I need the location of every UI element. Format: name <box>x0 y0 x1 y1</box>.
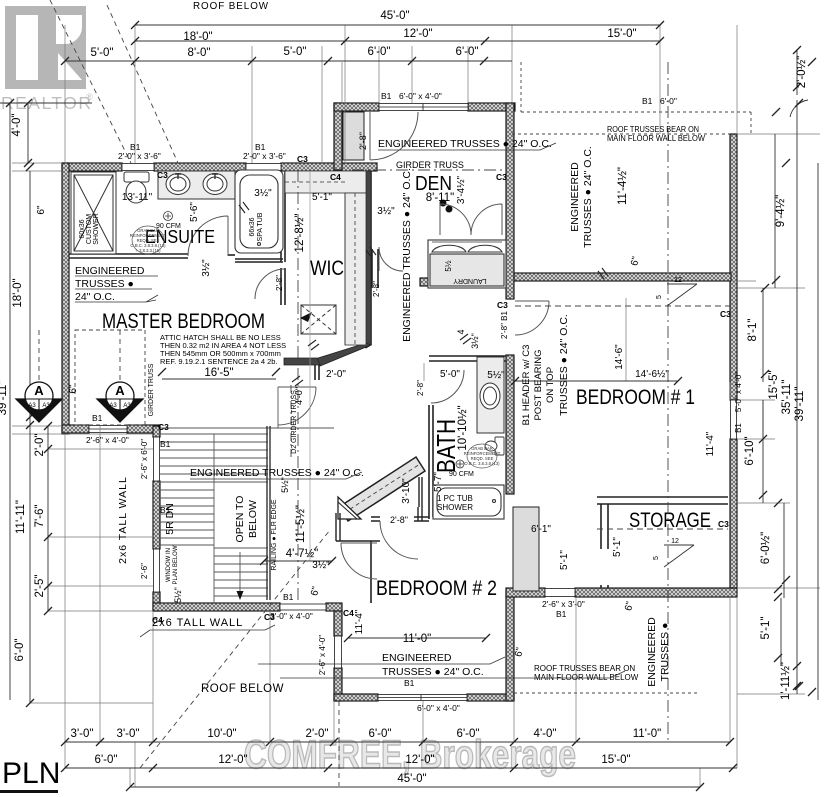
svg-text:5½: 5½ <box>444 260 453 271</box>
svg-text:5'-1": 5'-1" <box>760 617 772 640</box>
svg-text:3½": 3½" <box>312 560 330 571</box>
svg-text:SHOWER: SHOWER <box>437 503 473 512</box>
svg-text:2'-6" x 4'-0": 2'-6" x 4'-0" <box>318 635 327 675</box>
svg-text:6'-0" x 4'-0": 6'-0" x 4'-0" <box>399 91 442 101</box>
svg-text:2'-6" x 6'-0": 2'-6" x 6'-0" <box>140 439 149 479</box>
svg-text:6'-0": 6'-0" <box>369 728 392 740</box>
svg-text:14'-6½": 14'-6½" <box>635 369 669 380</box>
svg-text:5½": 5½" <box>280 477 290 493</box>
svg-text:2'-0" x 3'-6": 2'-0" x 3'-6" <box>243 151 286 161</box>
svg-text:ROOF BELOW: ROOF BELOW <box>193 0 269 12</box>
svg-text:B1: B1 <box>381 91 392 101</box>
svg-text:5'-7": 5'-7" <box>433 472 444 492</box>
svg-text:TRUSSES ●: TRUSSES ● <box>75 278 134 290</box>
svg-text:5'-0" x 4'-0": 5'-0" x 4'-0" <box>734 372 743 412</box>
svg-text:B1: B1 <box>556 609 567 619</box>
svg-text:C3: C3 <box>718 519 729 529</box>
svg-text:A3: A3 <box>109 403 117 409</box>
svg-text:ENGINEERED: ENGINEERED <box>569 162 581 232</box>
svg-text:2'-8" B1: 2'-8" B1 <box>500 310 509 338</box>
svg-text:35'-11": 35'-11" <box>781 380 793 415</box>
svg-text:2'-6" x 3'-0": 2'-6" x 3'-0" <box>542 599 585 609</box>
svg-text:12'-0": 12'-0" <box>218 754 247 766</box>
svg-text:11'-4": 11'-4" <box>354 609 365 634</box>
svg-text:2'-8": 2'-8" <box>372 281 381 297</box>
svg-text:2'-8": 2'-8" <box>390 515 408 525</box>
svg-text:MAIN FLOOR WALL BELOW: MAIN FLOOR WALL BELOW <box>534 673 639 682</box>
svg-text:6'-0": 6'-0" <box>456 46 479 58</box>
svg-text:6": 6" <box>36 205 47 215</box>
svg-text:4'-0": 4'-0" <box>534 728 557 740</box>
svg-text:D2 GIRDER TRUSS: D2 GIRDER TRUSS <box>291 390 298 454</box>
svg-text:5'-1": 5'-1" <box>312 192 332 203</box>
svg-text:3'-4½": 3'-4½" <box>456 175 467 204</box>
svg-text:9'-4½": 9'-4½" <box>775 195 787 228</box>
svg-text:18'-0": 18'-0" <box>183 31 212 43</box>
svg-text:TRUSSES ● 24" O.C.: TRUSSES ● 24" O.C. <box>382 666 484 678</box>
svg-text:C3: C3 <box>157 170 168 180</box>
svg-text:6'-0": 6'-0" <box>457 728 480 740</box>
svg-text:12: 12 <box>674 277 682 284</box>
svg-text:4'-7½": 4'-7½" <box>286 548 319 560</box>
svg-text:11'-4": 11'-4" <box>705 431 716 456</box>
svg-text:WINDOW IN: WINDOW IN <box>166 548 172 582</box>
svg-text:3'-0": 3'-0" <box>117 728 140 740</box>
svg-text:SPA TUB: SPA TUB <box>257 212 264 241</box>
svg-text:12: 12 <box>671 538 679 545</box>
svg-text:A3: A3 <box>42 403 50 409</box>
svg-text:8'-1": 8'-1" <box>747 319 759 342</box>
svg-text:WIC: WIC <box>310 257 344 280</box>
svg-text:B1: B1 <box>734 423 743 433</box>
svg-text:6'-1": 6'-1" <box>531 524 551 535</box>
svg-text:B1: B1 <box>92 413 103 423</box>
svg-text:ENGINEERED: ENGINEERED <box>382 652 452 664</box>
svg-text:4: 4 <box>456 329 466 334</box>
svg-text:11'-0": 11'-0" <box>633 728 661 740</box>
svg-text:3'-0" x 4'-0": 3'-0" x 4'-0" <box>270 611 313 621</box>
svg-text:BEDROOM # 1: BEDROOM # 1 <box>576 386 695 409</box>
svg-text:C3: C3 <box>496 172 507 182</box>
svg-text:MAIN FLOOR WALL BELOW: MAIN FLOOR WALL BELOW <box>607 133 705 143</box>
svg-text:B1: B1 <box>283 592 294 602</box>
svg-text:2x6 TALL WALL: 2x6 TALL WALL <box>152 617 243 629</box>
svg-text:CUSTOM: CUSTOM <box>86 214 93 244</box>
svg-text:45'-0": 45'-0" <box>397 773 426 785</box>
svg-text:B1: B1 <box>160 505 171 515</box>
svg-text:5'-6": 5'-6" <box>189 202 200 222</box>
svg-text:ON TOP: ON TOP <box>545 367 556 403</box>
svg-text:2'-0": 2'-0" <box>326 369 346 380</box>
svg-text:2'-0": 2'-0" <box>306 728 329 740</box>
svg-text:REF. 9.19.2.1 SENTENCE 2a 4 2b: REF. 9.19.2.1 SENTENCE 2a 4 2b. <box>160 357 278 366</box>
svg-text:11'-11": 11'-11" <box>15 500 27 534</box>
svg-text:ENGINEERED: ENGINEERED <box>646 617 658 687</box>
svg-text:7'-6": 7'-6" <box>34 505 46 528</box>
svg-text:5'-0": 5'-0" <box>440 369 460 380</box>
svg-text:5'-1": 5'-1" <box>612 537 623 557</box>
svg-text:3½": 3½" <box>377 206 395 217</box>
svg-text:24" O.C.: 24" O.C. <box>75 291 115 303</box>
svg-text:2'-6": 2'-6" <box>140 563 149 579</box>
svg-text:5: 5 <box>656 295 663 299</box>
svg-text:C4: C4 <box>343 608 354 618</box>
svg-text:A: A <box>115 383 125 398</box>
svg-text:6": 6" <box>68 384 79 394</box>
svg-text:C3: C3 <box>720 309 731 319</box>
svg-text:SHOWER: SHOWER <box>93 213 100 245</box>
svg-text:2'-8": 2'-8" <box>358 132 368 150</box>
svg-text:B1: B1 <box>160 439 171 449</box>
svg-text:ENGINEERED TRUSSES ● 24" O.C.: ENGINEERED TRUSSES ● 24" O.C. <box>190 467 364 479</box>
svg-text:A3: A3 <box>123 403 131 409</box>
svg-text:45'-0": 45'-0" <box>380 10 409 22</box>
svg-text:BEDROOM # 2: BEDROOM # 2 <box>376 577 497 600</box>
svg-text:PLAN BELOW: PLAN BELOW <box>173 545 179 584</box>
svg-text:®: ® <box>86 92 93 102</box>
svg-text:ENGINEERED: ENGINEERED <box>75 265 145 277</box>
svg-text:2x6 TALL WALL: 2x6 TALL WALL <box>117 476 129 564</box>
svg-text:14'-6": 14'-6" <box>614 344 625 370</box>
svg-text:66x36: 66x36 <box>249 217 256 236</box>
svg-text:5'-0": 5'-0" <box>91 47 114 59</box>
svg-text:5½": 5½" <box>173 587 183 603</box>
svg-text:12'-0": 12'-0" <box>405 754 434 766</box>
svg-text:TRUSSES ● 24" O.C.: TRUSSES ● 24" O.C. <box>558 314 570 416</box>
svg-text:10'-0": 10'-0" <box>207 728 236 740</box>
svg-text:C4: C4 <box>330 172 341 182</box>
svg-text:ENGINEERED TRUSSES ● 24" O.C.: ENGINEERED TRUSSES ● 24" O.C. <box>378 138 552 150</box>
svg-text:OPEN TO: OPEN TO <box>234 496 246 543</box>
svg-text:4'-0": 4'-0" <box>11 114 23 137</box>
svg-text:+ 3.8.3.3.(15): + 3.8.3.3.(15) <box>135 248 161 253</box>
svg-text:8'-0": 8'-0" <box>188 47 211 59</box>
svg-text:3½": 3½" <box>470 333 480 349</box>
svg-text:GIRDER TRUSS: GIRDER TRUSS <box>148 363 155 416</box>
svg-text:1 PC TUB: 1 PC TUB <box>437 494 473 503</box>
svg-text:39'-11": 39'-11" <box>0 381 9 416</box>
svg-text:6'-0": 6'-0" <box>95 754 118 766</box>
svg-text:16'-5": 16'-5" <box>204 367 233 379</box>
svg-text:3'-0": 3'-0" <box>71 728 94 740</box>
svg-text:2'-0" x 3'-6": 2'-0" x 3'-6" <box>118 151 161 161</box>
svg-text:5'-0": 5'-0" <box>284 46 307 58</box>
svg-text:ROOF BELOW: ROOF BELOW <box>201 683 284 695</box>
svg-text:RAILING ● FLR EDGE: RAILING ● FLR EDGE <box>271 499 278 570</box>
svg-text:POST BEARING: POST BEARING <box>533 349 544 420</box>
svg-text:6'-10": 6'-10" <box>744 436 756 465</box>
svg-text:6'-0": 6'-0" <box>368 46 391 58</box>
svg-text:90 CFM: 90 CFM <box>156 223 181 230</box>
svg-text:11'-4½": 11'-4½" <box>617 167 629 205</box>
svg-text:3'-10": 3'-10" <box>401 478 412 504</box>
svg-text:12'-8½": 12'-8½" <box>294 214 306 253</box>
svg-text:C3: C3 <box>264 612 275 622</box>
svg-text:90 CFM: 90 CFM <box>449 471 474 478</box>
svg-text:2'-0½": 2'-0½" <box>796 56 808 89</box>
svg-text:ROOF TRUSSES BEAR ON: ROOF TRUSSES BEAR ON <box>534 664 635 673</box>
svg-text:60x36: 60x36 <box>79 219 86 238</box>
svg-text:5½": 5½" <box>487 370 505 381</box>
svg-text:C4: C4 <box>152 615 163 625</box>
svg-text:BELOW: BELOW <box>247 500 259 538</box>
svg-text:PLN: PLN <box>2 757 60 790</box>
svg-text:5: 5 <box>653 556 660 560</box>
svg-text:15'-0": 15'-0" <box>607 28 636 40</box>
svg-text:2'-8": 2'-8" <box>416 380 425 396</box>
svg-text:18'-0": 18'-0" <box>12 278 24 307</box>
svg-text:2'-6" x 4'-0": 2'-6" x 4'-0" <box>86 435 129 445</box>
svg-text:11'-0": 11'-0" <box>403 633 431 645</box>
svg-text:39'-11": 39'-11" <box>794 387 806 422</box>
svg-text:6'-0" x 4'-0": 6'-0" x 4'-0" <box>417 703 460 713</box>
svg-text:ENGINEERED TRUSSES ● 24" O.C.: ENGINEERED TRUSSES ● 24" O.C. <box>401 168 413 342</box>
svg-text:8'-11": 8'-11" <box>426 192 454 204</box>
svg-text:6'-0": 6'-0" <box>14 639 26 662</box>
svg-text:2'-8": 2'-8" <box>275 275 284 291</box>
svg-text:2'-0": 2'-0" <box>34 434 46 457</box>
svg-text:B1: B1 <box>642 96 653 106</box>
svg-text:2'-5": 2'-5" <box>34 575 46 598</box>
svg-text:3½": 3½" <box>254 188 272 199</box>
svg-text:15'-5": 15'-5" <box>768 370 780 399</box>
svg-text:A3: A3 <box>28 403 36 409</box>
svg-text:C3: C3 <box>297 154 308 164</box>
svg-text:12'-0": 12'-0" <box>403 28 432 40</box>
svg-text:LAUNDRY: LAUNDRY <box>453 277 487 284</box>
svg-text:A: A <box>34 383 44 398</box>
svg-text:1'-11½": 1'-11½" <box>780 662 792 700</box>
svg-text:10'-10½": 10'-10½" <box>457 405 469 450</box>
svg-text:5'-1": 5'-1" <box>559 550 570 570</box>
svg-text:13'-11": 13'-11" <box>122 192 153 203</box>
svg-text:C3: C3 <box>158 422 169 432</box>
svg-text:C3: C3 <box>497 300 508 310</box>
svg-text:6'-0": 6'-0" <box>660 96 677 106</box>
svg-text:15'-0": 15'-0" <box>601 754 630 766</box>
svg-text:3½": 3½" <box>201 259 212 277</box>
svg-text:TRUSSES ● 24" O.C.: TRUSSES ● 24" O.C. <box>582 146 594 248</box>
svg-text:B1 HEADER w/ C3: B1 HEADER w/ C3 <box>521 345 532 426</box>
svg-text:6'-0½": 6'-0½" <box>760 532 772 565</box>
svg-text:TRUSSES ●: TRUSSES ● <box>659 623 671 682</box>
svg-text:B1: B1 <box>404 678 415 688</box>
